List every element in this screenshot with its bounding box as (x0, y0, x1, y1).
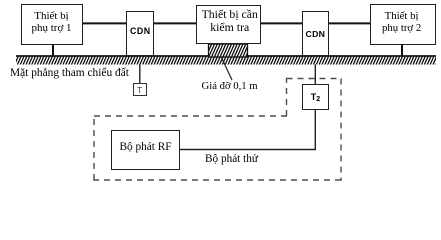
wire bus segment 1 (82, 22, 127, 24)
box CDN2 (302, 11, 330, 56)
wire bus segment 3 (258, 22, 303, 24)
ground plane top line (16, 55, 436, 57)
label ground reference plane (10, 67, 129, 79)
box T (termination) (133, 83, 147, 96)
label support 0.1 m (202, 80, 258, 92)
support block 0.1m (209, 44, 248, 57)
wire CDN1 to T (139, 43, 141, 83)
wire CDN2 to T2 (314, 43, 316, 84)
box EUT: Thiet bi can kiem tra (196, 5, 261, 45)
ground plane hatch (16, 57, 436, 65)
box T2 (transformer) (302, 84, 329, 110)
label test generator (205, 153, 258, 165)
box CDN1 (126, 11, 154, 56)
wire stub AE1 to ground (52, 45, 54, 57)
wire T2 to RF generator (179, 110, 315, 150)
box AE2: Thiet bi phu tro 2 (370, 4, 436, 45)
wire bus segment 2 (153, 22, 197, 24)
dashed test-generator boundary (93, 78, 341, 181)
wire bus segment 4 (328, 22, 371, 24)
wire stub AE2 to ground (401, 45, 403, 57)
box RF generator: Bo phat RF (111, 130, 180, 170)
pointer line to support label (222, 58, 233, 81)
box AE1: Thiet bi phu tro 1 (21, 4, 83, 45)
